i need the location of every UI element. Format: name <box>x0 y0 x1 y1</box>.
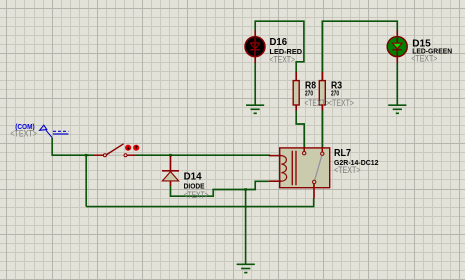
ground below D15 <box>388 105 406 113</box>
wire bottom rail to relay common pin <box>86 198 314 206</box>
relay RL7 coil pin 2 <box>269 180 282 182</box>
diode D14 <box>162 156 179 186</box>
wire D16 cathode to ground <box>254 63 256 105</box>
ground below D16 <box>246 105 264 113</box>
svg-text:D16: D16 <box>270 36 288 48</box>
relay RL7 coil pin 1 <box>269 155 282 157</box>
ground at bottom center <box>237 264 255 272</box>
resistor R8 <box>293 72 299 111</box>
junction at staircase and ground drop <box>244 188 247 191</box>
wire terminal COM to main rail <box>52 138 94 155</box>
wire R3 top to D15 anode <box>322 21 397 72</box>
relay RL7 core <box>292 151 296 186</box>
svg-text:<TEXT>: <TEXT> <box>304 98 329 108</box>
switch body line <box>106 154 126 156</box>
wire D16 anode to R8 top <box>255 21 304 72</box>
svg-text:D14: D14 <box>184 170 202 182</box>
relay RL7 contact NO pin <box>321 148 324 156</box>
svg-text:270: 270 <box>331 91 339 98</box>
wire switch output to relay coil pin 1 <box>136 154 270 156</box>
wire R3 bottom to relay contact pin NO <box>321 110 323 147</box>
switch right pin <box>127 154 136 156</box>
svg-text:R3: R3 <box>331 79 342 91</box>
svg-text:<TEXT>: <TEXT> <box>270 54 296 64</box>
relay RL7 contact NC pin <box>303 148 306 155</box>
wire staircase to bottom ground <box>245 190 247 264</box>
relay RL7 coil <box>281 156 286 182</box>
wire R8 bottom to relay contact pin NC <box>296 110 304 147</box>
wire D15 cathode to ground <box>396 63 398 105</box>
wire left drop from main rail <box>85 155 87 206</box>
relay RL7 body <box>280 148 330 188</box>
junction at main rail and D14 anode <box>169 154 172 157</box>
relay RL7 common pin <box>313 180 316 198</box>
svg-text:<TEXT>: <TEXT> <box>411 54 437 64</box>
svg-text:<TEXT>: <TEXT> <box>334 165 361 175</box>
svg-text:<TEXT>: <TEXT> <box>10 128 37 138</box>
LED D16 red <box>245 31 265 64</box>
svg-text:270: 270 <box>305 91 313 98</box>
switch SW left pin <box>94 154 104 156</box>
switch actuator indicator right <box>133 145 139 151</box>
resistor R3 <box>319 72 325 111</box>
junction at main rail and left drop <box>85 154 88 157</box>
relay RL7 armature <box>315 156 322 180</box>
svg-text:<TEXT>: <TEXT> <box>328 98 354 108</box>
wire D14 cathode staircase to relay coil pin 2 <box>171 181 269 196</box>
switch lever <box>106 144 124 155</box>
switch pivot contact <box>103 154 106 157</box>
switch actuator indicator left <box>125 145 131 151</box>
svg-text:RL7: RL7 <box>334 147 351 159</box>
terminal (COM) input flag <box>40 125 69 138</box>
svg-text:R8: R8 <box>305 79 316 91</box>
svg-text:<TEXT>: <TEXT> <box>184 190 209 200</box>
LED D15 green <box>387 31 407 64</box>
switch right contact <box>124 154 127 157</box>
